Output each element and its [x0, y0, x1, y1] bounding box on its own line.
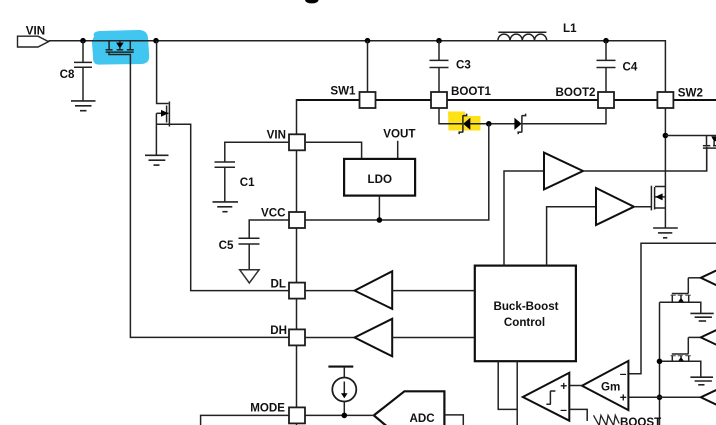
wire control bottom to comparator/bottom edge — [516, 361, 518, 425]
svg-text:BOOT1: BOOT1 — [451, 85, 491, 98]
wire heavy SW1-BOOT1 — [376, 99, 432, 101]
amp Gm error amplifier — [582, 361, 628, 410]
wire heavy SW2-right edge — [673, 99, 716, 101]
ground under QB — [690, 377, 713, 385]
pin BOOT2 — [556, 86, 614, 108]
wire MODE pin to ADC — [305, 414, 374, 416]
svg-text:SW2: SW2 — [678, 87, 703, 100]
wire VCC pin to C5 — [249, 220, 289, 238]
ramp sawtooth BOOST — [594, 415, 662, 425]
svg-text:ADC: ADC — [410, 412, 436, 425]
svg-text:C8: C8 — [60, 68, 75, 81]
wire SW1 to rail — [367, 41, 369, 92]
ground under C1 — [213, 202, 239, 212]
node dot SW2 branch — [663, 133, 669, 139]
wire Q1 gate to DH — [109, 52, 289, 337]
pin SW1 — [330, 84, 375, 108]
pin VCC — [261, 207, 305, 228]
transistor Q2 (depletion start FET) — [156, 41, 169, 127]
capacitor C8 — [60, 41, 92, 101]
highlight cyan over Q1 — [92, 30, 149, 65]
wire MODE to left edge drop — [201, 415, 289, 425]
svg-text:DL: DL — [271, 277, 286, 290]
svg-text:VCC: VCC — [261, 207, 286, 220]
svg-text:SW1: SW1 — [330, 84, 356, 97]
svg-text:BOOT2: BOOT2 — [556, 86, 596, 99]
wire Gm minus feed — [628, 243, 716, 374]
pin SW2 — [657, 87, 703, 108]
transistor Q3 (boost low-side FET) — [651, 186, 665, 228]
wire right column vertical — [659, 302, 661, 425]
wire SW2 node to right FET Q4 — [665, 135, 716, 137]
capacitor C1 — [215, 162, 256, 202]
svg-text:+: + — [560, 379, 567, 393]
svg-text:VIN: VIN — [26, 24, 45, 37]
diode D2 (schottky) — [514, 114, 525, 135]
svg-text:DH: DH — [270, 324, 287, 337]
wire QB rail — [660, 361, 701, 377]
node dot BOOT diode junction — [486, 121, 492, 127]
wire top rail — [49, 41, 666, 92]
amp T2 (boost gate driver) — [547, 188, 652, 266]
transistor Q4 (partial at right edge) — [703, 136, 716, 172]
wire VIN pin to C1 — [225, 142, 289, 161]
node VOUT — [383, 127, 415, 159]
node dot L1-right/rail — [603, 38, 609, 44]
amp T1 (buck gate driver) — [504, 147, 707, 266]
svg-text:L1: L1 — [563, 22, 577, 35]
svg-text:C1: C1 — [240, 176, 255, 189]
svg-text:+: + — [620, 391, 627, 405]
current source I1 on MODE — [328, 367, 356, 416]
svg-text:LDO: LDO — [368, 173, 392, 186]
pin MODE — [250, 401, 305, 423]
buffer U_DL (drives DL) — [305, 271, 475, 309]
pin VIN — [267, 129, 305, 151]
ground under C8 — [71, 101, 96, 111]
diode D1 (schottky, highlighted) — [459, 114, 470, 135]
svg-text:–: – — [620, 366, 627, 380]
node dot C3/rail — [436, 38, 442, 44]
svg-text:Gm: Gm — [601, 381, 620, 394]
svg-text:VIN: VIN — [267, 129, 286, 142]
node VIN input flag — [18, 24, 49, 47]
wire Gm+ to column — [628, 396, 659, 398]
wire SW2 down — [664, 108, 666, 187]
svg-text:Buck-Boost: Buck-Boost — [493, 300, 558, 313]
transistor Q1 (high-side pass FET, highlighted) — [106, 41, 134, 52]
comparator PWM — [523, 373, 570, 421]
svg-text:C4: C4 — [623, 61, 638, 74]
wire SW1 column top — [297, 99, 360, 408]
svg-text:VOUT: VOUT — [383, 127, 415, 140]
capacitor C3 — [430, 41, 472, 92]
wire heavy BOOT1-BOOT2 — [447, 99, 598, 101]
wire comparator minus to ramp — [569, 409, 587, 421]
box right of ADC — [444, 415, 463, 425]
signal ground triangle under C5 — [240, 270, 259, 283]
converter ADC — [374, 391, 445, 425]
svg-text:C5: C5 — [219, 239, 234, 252]
pin DL — [271, 277, 305, 298]
wire D1 to D2 — [470, 123, 515, 125]
wire diode junction to VCC rail — [305, 124, 489, 220]
wire Q2 source to DL — [156, 124, 289, 290]
pin DH — [270, 324, 305, 346]
node dot LDO/VCC — [377, 217, 383, 223]
wire D2 to BOOT2 — [522, 108, 606, 124]
title text remnant (cropped letter) — [305, 0, 318, 3]
node dot Gm+/column — [657, 395, 663, 401]
ground under Q3 — [653, 228, 678, 238]
node dot Q1-right/rail — [153, 38, 159, 44]
ground under QA — [690, 313, 713, 321]
block Buck-Boost Control — [475, 266, 576, 362]
node dot QB/column — [657, 359, 663, 365]
wire VIN pin to LDO — [305, 142, 362, 159]
wire control bottom left L — [498, 361, 517, 409]
capacitor C4 — [597, 41, 638, 92]
inductor L1 — [498, 22, 577, 41]
buffer U_DH (drives DH) — [305, 319, 475, 357]
regulator LDO — [344, 159, 415, 196]
node dot SW1/rail — [365, 38, 371, 44]
transistor QA (right column upper) — [671, 278, 691, 303]
svg-text:MODE: MODE — [250, 401, 285, 414]
capacitor C5 — [219, 238, 260, 270]
amp T9 (right edge bottom) — [660, 379, 716, 416]
wire LDO to VCC rail — [378, 196, 380, 220]
wire heavy BOOT2-SW2 — [614, 99, 657, 101]
wire QA rail — [660, 302, 701, 313]
wire Q2 gate to ground — [155, 113, 157, 155]
svg-text:Control: Control — [504, 316, 545, 329]
amp T8 (right edge middle) — [688, 319, 716, 356]
svg-text:–: – — [560, 402, 567, 416]
wire pin column stub below MODE — [296, 423, 298, 425]
transistor QB (right column lower) — [671, 337, 691, 361]
svg-text:C3: C3 — [456, 59, 471, 72]
wire BOOT1 to D1 — [439, 108, 462, 124]
amp T7 (right edge top) — [688, 259, 716, 296]
node dot C8/rail — [80, 38, 86, 44]
node dot MODE/current source — [342, 413, 348, 419]
svg-text:BOOST: BOOST — [620, 416, 661, 425]
pin BOOT1 — [431, 85, 491, 108]
ground under Q2 — [145, 155, 169, 165]
highlight yellow over D1 — [448, 112, 481, 131]
wire Gm out to comparator — [569, 385, 582, 387]
